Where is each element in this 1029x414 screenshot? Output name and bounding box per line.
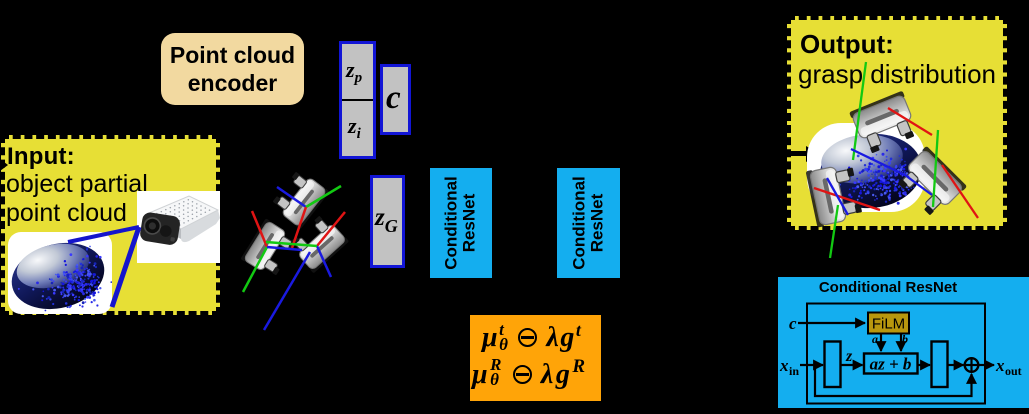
- gripper A: [270, 168, 330, 230]
- orange math line 2: [472, 356, 588, 391]
- svg-text:az + b: az + b: [870, 355, 912, 374]
- wire layer1 to az+b: [841, 364, 863, 366]
- svg-text:in: in: [789, 364, 799, 378]
- grasp B y-axis wire: [243, 247, 267, 292]
- input arrow head: [0, 159, 8, 171]
- output grasp 3 z-axis wire: [827, 178, 848, 215]
- output grasp 3 x-axis wire: [814, 188, 880, 210]
- svg-text:out: out: [1005, 364, 1022, 378]
- orange gradient update box: [470, 315, 601, 401]
- output grasp 2 x-axis wire: [942, 165, 978, 218]
- svg-text:z: z: [845, 348, 853, 365]
- input box body text: [6, 170, 148, 228]
- z_G box: [370, 175, 405, 268]
- orange math line 1: [482, 320, 582, 354]
- svg-text:a: a: [872, 332, 878, 346]
- z_i label: [348, 113, 361, 143]
- camera card: [137, 191, 220, 263]
- camera icon: [137, 191, 220, 263]
- svg-text:b: b: [902, 332, 908, 346]
- FiLM box: [868, 313, 909, 334]
- conditional resnet box 2: [557, 168, 620, 278]
- bottom conditional resnet panel: [778, 277, 1029, 408]
- skip wire: [815, 365, 972, 396]
- output grasp 3 y-axis wire: [830, 205, 838, 258]
- az+b box: [864, 354, 918, 374]
- input box heading: [7, 143, 75, 171]
- output gripper left: [806, 162, 864, 228]
- grasp B z-axis wire: [267, 247, 302, 250]
- output grasp 2 y-axis wire: [933, 130, 938, 207]
- output gripper top: [849, 91, 920, 156]
- panel diagram: [778, 277, 1029, 408]
- inner frame: [807, 304, 985, 404]
- output box: [787, 16, 1007, 230]
- top face: [149, 196, 218, 229]
- z_G label: [375, 204, 398, 237]
- output grasp 1 x-axis wire: [888, 108, 932, 135]
- output white blob: [807, 123, 925, 212]
- output gripper right: [893, 146, 967, 220]
- output arrow: [780, 146, 820, 162]
- wire layer2 to oplus: [948, 364, 964, 366]
- gripper C: [287, 212, 349, 273]
- front dark face: [139, 211, 181, 246]
- output grippers + axes: [780, 30, 1029, 260]
- output grasp 1 y-axis wire: [853, 62, 866, 160]
- wire c to FiLM: [798, 322, 865, 324]
- wire x_in to layer1: [800, 364, 823, 366]
- grasp A x-axis wire: [292, 207, 306, 248]
- grasp C y-axis wire: [266, 242, 317, 246]
- body side: [181, 210, 220, 242]
- grasp C x-axis wire: [317, 212, 345, 246]
- grasp C z-axis long wire: [264, 252, 310, 330]
- layer rect 1: [825, 342, 841, 388]
- gripper cluster: [230, 160, 370, 335]
- input bowl card: [8, 232, 112, 314]
- metal band: [148, 213, 181, 239]
- output grasp 1 z-axis wire: [851, 149, 909, 177]
- wire az+b to layer2: [918, 364, 931, 366]
- grasp B x-axis wire: [252, 211, 267, 247]
- oplus junction: [965, 358, 979, 372]
- z_p z_i box: [339, 41, 376, 159]
- camera-to-bowl pointer wire lower: [112, 227, 139, 307]
- wire oplus to x_out: [978, 364, 994, 366]
- layer rect 2: [932, 342, 948, 388]
- point cloud encoder box: [161, 33, 304, 105]
- c label: [386, 80, 401, 117]
- output box heading: [800, 30, 894, 58]
- output bowl: [780, 80, 1029, 260]
- output grasp 2 z-axis wire: [905, 175, 932, 195]
- svg-text:FiLM: FiLM: [872, 316, 905, 333]
- svg-text:x: x: [779, 356, 789, 375]
- grasp A z-axis wire: [277, 187, 306, 207]
- input bowl image: [8, 232, 112, 314]
- camera-to-bowl pointer wire upper: [68, 227, 139, 242]
- svg-text:x: x: [995, 356, 1005, 375]
- grasp A y-axis wire: [306, 186, 341, 207]
- z_p label: [346, 57, 362, 87]
- gripper B: [240, 218, 299, 279]
- z_p z_i divider: [342, 99, 373, 101]
- svg-text:c: c: [789, 314, 797, 333]
- wire FiLM to az+b right: [900, 334, 902, 352]
- input box: [1, 135, 220, 315]
- panel title: [778, 281, 998, 295]
- grasp C z-axis wire: [317, 246, 331, 277]
- output box body text: [798, 60, 996, 89]
- conditional resnet box 1: [430, 168, 492, 278]
- c box: [380, 64, 411, 135]
- wire FiLM to az+b left: [880, 334, 882, 352]
